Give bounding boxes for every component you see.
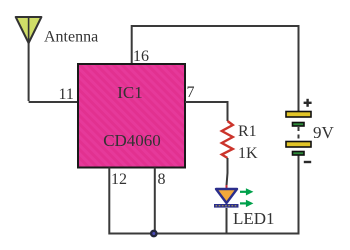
wire: pin11 horizontal — [29, 101, 78, 103]
wire: LED cathode down — [226, 208, 228, 234]
svg-text:1K: 1K — [238, 145, 258, 162]
svg-text:LED1: LED1 — [233, 209, 275, 228]
svg-text:8: 8 — [158, 171, 166, 188]
junction node — [150, 230, 158, 238]
LED1 anode red tick — [226, 185, 228, 189]
LED light arrow 2 — [240, 200, 253, 207]
svg-text:IC1: IC1 — [117, 83, 143, 102]
svg-text:12: 12 — [111, 171, 127, 188]
plus sign — [304, 99, 312, 107]
LED light arrow 1 — [240, 188, 253, 195]
svg-text:16: 16 — [133, 48, 149, 65]
wire: antenna stem down to pin11 — [28, 17, 30, 101]
battery cell1 long plate — [286, 112, 311, 118]
wire: bottom rail — [109, 155, 298, 234]
svg-text:9V: 9V — [313, 123, 335, 142]
battery inner dashed link — [298, 127, 300, 141]
antenna — [16, 17, 42, 43]
wire: pin7 to resistor top — [185, 102, 228, 121]
LED1 cathode bar — [214, 204, 239, 208]
svg-text:Antenna: Antenna — [44, 29, 98, 46]
battery cell2 short plate — [293, 152, 305, 156]
minus sign — [304, 161, 311, 163]
battery cell1 short plate — [293, 123, 305, 127]
svg-text:11: 11 — [59, 86, 74, 103]
IC IC1 CD4060 body — [78, 64, 185, 168]
battery cell2 long plate — [286, 142, 311, 148]
wire: resistor bottom to LED anode — [227, 158, 228, 186]
resistor R1 zigzag — [222, 121, 233, 158]
wire: pin12 down — [108, 168, 110, 235]
svg-text:R1: R1 — [238, 123, 257, 140]
wire: top rail from pin16 to battery + — [132, 26, 299, 112]
battery BT1 9V — [286, 99, 312, 162]
wire: pin8 down — [154, 168, 156, 234]
LED1 triangle — [216, 189, 237, 203]
svg-text:7: 7 — [187, 84, 195, 101]
svg-text:CD4060: CD4060 — [103, 131, 161, 150]
